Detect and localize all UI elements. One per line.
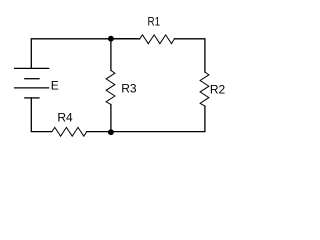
wire node A to R3 top <box>110 39 112 71</box>
resistor R4 <box>52 110 87 136</box>
wire node A to R1 left <box>111 38 140 40</box>
resistor R2 <box>200 72 225 106</box>
wire R3 bottom to node B <box>110 105 112 132</box>
node A junction dot <box>108 36 113 41</box>
wire R1 right to top-right corner <box>174 39 205 72</box>
wire top-left: battery positive to node A <box>31 39 139 69</box>
svg-text:R1: R1 <box>148 15 161 29</box>
svg-text:R4: R4 <box>57 110 73 124</box>
svg-text:R2: R2 <box>210 83 226 97</box>
svg-text:E: E <box>51 78 59 92</box>
battery E <box>15 68 59 98</box>
svg-text:R3: R3 <box>121 82 137 96</box>
wire node B to R4 right <box>87 131 111 133</box>
resistor R1 <box>140 15 175 44</box>
resistor R3 <box>106 70 137 104</box>
wire R4 left to battery negative <box>31 98 52 132</box>
node B junction dot <box>108 130 113 135</box>
wire R2 bottom to bottom-right corner <box>111 106 205 132</box>
